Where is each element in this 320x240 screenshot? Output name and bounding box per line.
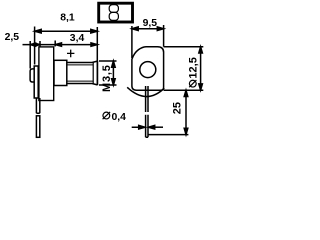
arrow 3,4 left [55, 43, 61, 46]
arrow 9,5 right [157, 27, 163, 31]
dia symbol for 0,4 [103, 112, 111, 119]
dia symbol for 12,5 [189, 80, 196, 87]
lead wire upper segment (front) [146, 86, 148, 112]
arrow left 8,1 [35, 29, 42, 33]
arrow 2,5 left [30, 43, 35, 46]
svg-text:2,5: 2,5 [5, 32, 20, 43]
extension 9,5 right [163, 25, 165, 47]
dia 0,4 arrow left [132, 125, 145, 129]
thread root lines [67, 65, 94, 81]
extension 9,5 left [131, 26, 133, 58]
extension 2,5 right [39, 41, 41, 47]
figure-number box logo [99, 3, 133, 22]
threaded stud [67, 61, 98, 85]
dimension 8,1 line [35, 30, 98, 32]
thread undercut line [92, 63, 94, 84]
extension 2,5 left [29, 41, 31, 69]
svg-text:0,4: 0,4 [112, 112, 127, 123]
solder lug plate [34, 66, 38, 98]
dia 0,4 arrow right [148, 125, 154, 129]
dimension 9,5 line [132, 28, 164, 30]
extension 25 bottom [149, 134, 189, 136]
svg-text:3,4: 3,4 [70, 33, 85, 44]
arrow 3,4 right [91, 43, 97, 46]
rivet arc on lug [30, 69, 34, 82]
body outline [132, 47, 164, 90]
flange plate [39, 47, 54, 101]
dimension 2,5 / 3,4 shared line [23, 44, 98, 46]
dimension line dia 12,5 [200, 47, 202, 90]
M3,5 dimension line [112, 61, 114, 85]
arrows dia 12,5 [199, 47, 203, 53]
bottom arc of round can [127, 87, 164, 96]
arrow right 8,1 [91, 29, 98, 33]
lead wire lower segment [36, 116, 39, 138]
svg-text:8,1: 8,1 [60, 12, 75, 23]
svg-text:M3,5: M3,5 [101, 64, 113, 92]
extension line right x=97 [96, 27, 98, 61]
M3,5 extension lines [99, 61, 117, 85]
dimension line 25 [185, 90, 187, 134]
lead wire upper segment [36, 98, 39, 113]
M3,5 arrows [112, 61, 116, 67]
arrows 25 [184, 90, 188, 96]
lead wire lower segment (front) [146, 115, 148, 137]
screw head circle [140, 62, 156, 78]
extension lines dia 12,5 [164, 47, 204, 90]
extension 3,4 left [54, 41, 56, 47]
svg-text:25: 25 [171, 102, 183, 114]
svg-text:12,5: 12,5 [188, 57, 200, 78]
arrow 9,5 left [132, 27, 138, 31]
svg-text:9,5: 9,5 [143, 18, 158, 29]
slot cross mark [67, 50, 74, 58]
arrow 2,5 right [35, 43, 40, 46]
collar cylinder [54, 60, 67, 85]
digit 8 in logo [109, 5, 118, 21]
extension line 8,1 left [34, 27, 36, 65]
